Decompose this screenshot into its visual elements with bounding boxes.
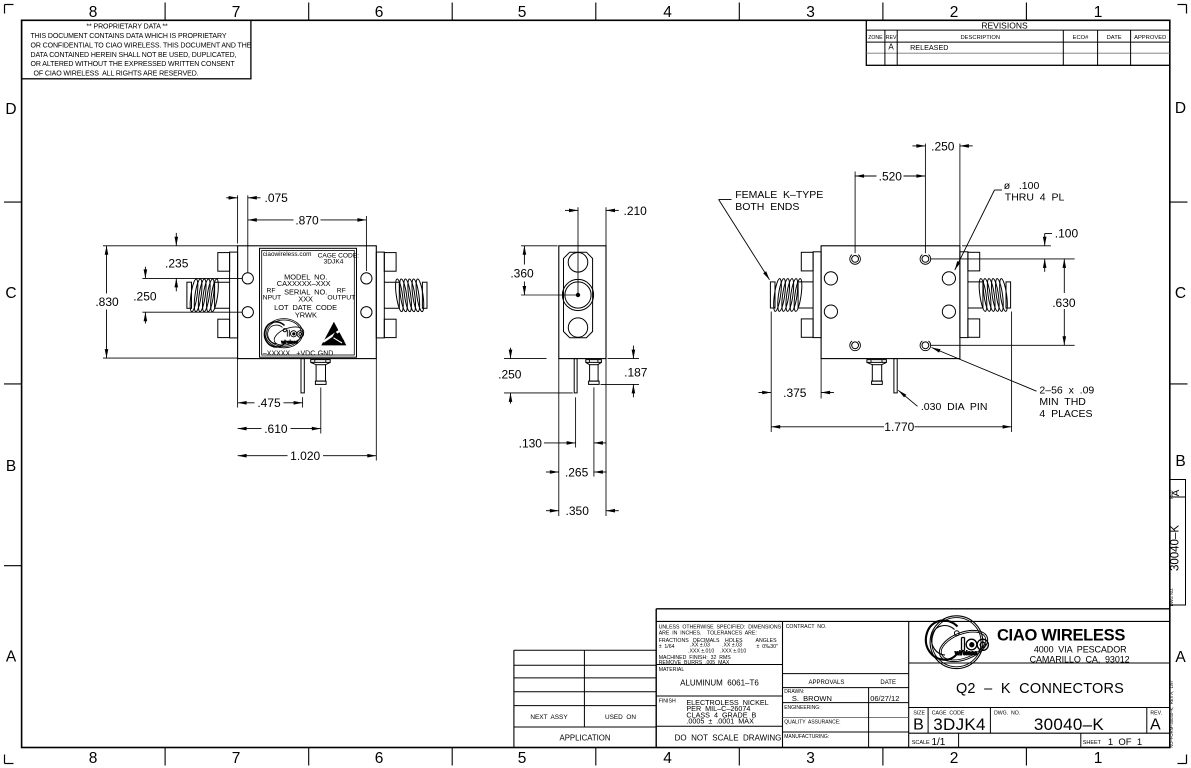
svg-text:DWG. NO.: DWG. NO.	[994, 711, 1020, 717]
svg-text:1.020: 1.020	[290, 449, 320, 463]
front view RF input connector	[187, 252, 238, 338]
svg-text:.375: .375	[783, 386, 807, 400]
form control note	[1169, 680, 1174, 748]
svg-text:OR ALTERED WITHOUT THE EXPRESS: OR ALTERED WITHOUT THE EXPRESSED WRITTEN…	[31, 61, 236, 68]
svg-text:.265: .265	[565, 465, 589, 479]
dim .520 back	[855, 169, 925, 253]
svg-text:D: D	[1175, 100, 1186, 117]
svg-text:3DJK4: 3DJK4	[324, 259, 344, 266]
note female k-type both ends	[719, 189, 824, 280]
zone column numbers bottom	[89, 750, 1103, 767]
tolerance notes	[659, 624, 782, 666]
svg-text:RELEASED: RELEASED	[910, 43, 948, 52]
svg-text:DATE: DATE	[1107, 35, 1122, 41]
svg-text:.870: .870	[295, 213, 319, 227]
svg-text:.350: .350	[566, 504, 590, 518]
scale cell	[912, 737, 946, 748]
drawn row	[784, 689, 899, 703]
svg-text:A: A	[1175, 649, 1186, 666]
finish cell	[659, 698, 769, 726]
side view GND pin	[586, 360, 602, 477]
manufacturing row	[784, 734, 829, 740]
svg-text:ciaowireless.com: ciaowireless.com	[263, 251, 312, 258]
svg-text:DO NOT SCALE DRAWING: DO NOT SCALE DRAWING	[675, 733, 782, 742]
back view .030 dia bias pin	[894, 359, 897, 393]
svg-text:DATE: DATE	[880, 680, 896, 686]
front view product label plate	[260, 248, 357, 357]
svg-text:.235: .235	[165, 257, 189, 271]
svg-text:–XXXXX: –XXXXX	[263, 351, 291, 358]
svg-text:4 PLACES: 4 PLACES	[1039, 408, 1092, 420]
svg-text:CONTRACT NO.: CONTRACT NO.	[786, 624, 827, 630]
svg-text:2: 2	[950, 4, 959, 21]
svg-text:C: C	[1175, 285, 1186, 302]
dim .265 side	[546, 359, 607, 481]
svg-text:1/1: 1/1	[931, 737, 945, 748]
front view +VDC bias pin	[301, 359, 304, 393]
svg-text:QUALITY ASSURANCE:: QUALITY ASSURANCE:	[784, 720, 840, 726]
dim .610 front	[238, 388, 321, 437]
svg-text:06/27/12: 06/27/12	[870, 694, 899, 703]
svg-text:ARE IN INCHES. TOLERANCES: ARE IN INCHES. TOLERANCES ARE:	[659, 631, 757, 637]
side view body outline	[559, 246, 606, 359]
svg-text:DWG NO.: DWG NO.	[1169, 588, 1174, 607]
svg-text:.475: .475	[257, 396, 281, 410]
svg-text:A: A	[1171, 489, 1182, 496]
svg-text:UNLESS OTHERWISE SPECIFIED:: UNLESS OTHERWISE SPECIFIED: DIMENSIONS	[659, 624, 782, 630]
proprietary data notice box	[22, 20, 252, 79]
svg-text:4: 4	[663, 750, 672, 767]
company name and address	[997, 626, 1130, 664]
svg-text:REMOVE BURRS .005 MAX: REMOVE BURRS .005 MAX	[659, 660, 730, 666]
dim .250 back	[912, 139, 972, 253]
dim .870 front	[248, 213, 367, 271]
svg-text:.250: .250	[133, 290, 157, 304]
svg-text:3DJK4: 3DJK4	[933, 715, 986, 734]
side view upper connector jack circle	[568, 252, 588, 272]
quality assurance row	[784, 720, 840, 726]
revisions table	[866, 20, 1170, 65]
svg-text:1: 1	[1094, 4, 1103, 21]
svg-text:1.770: 1.770	[884, 420, 914, 434]
svg-text:.520: .520	[879, 169, 903, 183]
dim .250 side	[498, 348, 573, 404]
svg-text:THIS DOCUMENT CONTAINS DATA WH: THIS DOCUMENT CONTAINS DATA WHICH IS PRO…	[31, 33, 227, 40]
size cell	[913, 711, 925, 734]
application block	[514, 650, 656, 747]
contract no cell	[786, 624, 827, 630]
dim 1.020 front	[238, 359, 377, 464]
dim .250 front	[133, 267, 242, 324]
svg-text:ANGLES: ANGLES	[756, 638, 778, 644]
title block ciao logo	[926, 616, 992, 669]
back view 2-56 tapped holes	[850, 255, 931, 351]
front view RF output connector	[376, 252, 427, 338]
sheet cell	[1083, 737, 1142, 748]
svg-text:B: B	[6, 458, 16, 475]
svg-text:A: A	[1150, 717, 1161, 734]
svg-text:SCALE: SCALE	[912, 740, 930, 746]
zone row letters right	[1175, 100, 1186, 666]
svg-text:OF CIAO WIRELESS ALL RIGHTS A: OF CIAO WIRELESS ALL RIGHTS ARE RESERVED…	[34, 71, 199, 78]
svg-text:2–56 x .09: 2–56 x .09	[1039, 385, 1094, 397]
svg-text:REV: REV	[886, 35, 897, 41]
svg-text:** PROPRIETARY DATA **: ** PROPRIETARY DATA **	[86, 23, 168, 30]
svg-text:SHEET: SHEET	[1083, 740, 1102, 746]
svg-text:.075: .075	[265, 191, 289, 205]
svg-text:4: 4	[663, 4, 672, 21]
svg-text:FRACTIONS: FRACTIONS	[659, 638, 690, 644]
zone column numbers top	[89, 4, 1103, 21]
svg-text:FEMALE K–TYPE: FEMALE K–TYPE	[735, 189, 823, 201]
do not scale drawing cell	[675, 733, 782, 742]
svg-text:.187: .187	[624, 365, 648, 379]
svg-text:APPLICATION: APPLICATION	[560, 733, 611, 742]
dim .350 side	[546, 359, 619, 518]
svg-text:30040–K: 30040–K	[1034, 715, 1105, 734]
svg-text:A: A	[6, 649, 17, 666]
back view RF input connector	[770, 252, 821, 338]
svg-text:ECO#: ECO#	[1073, 35, 1090, 41]
front view GND feedthru pin	[311, 360, 331, 385]
svg-text:wireless: wireless	[281, 340, 298, 345]
svg-text:.XXX ±.010: .XXX ±.010	[720, 649, 746, 655]
svg-text:± 0‰30″: ± 0‰30″	[757, 644, 779, 650]
svg-text:FINISH: FINISH	[659, 699, 676, 705]
svg-text:USED ON: USED ON	[605, 714, 636, 721]
svg-text:8: 8	[89, 750, 98, 767]
svg-text:± 1/64: ± 1/64	[659, 644, 675, 650]
side view K connector bore	[562, 279, 593, 310]
svg-text:MATERIAL: MATERIAL	[659, 667, 685, 673]
drawing title	[956, 681, 1124, 697]
svg-text:A: A	[888, 43, 894, 52]
back view RF output connector	[960, 252, 1011, 338]
material cell	[659, 667, 760, 688]
svg-text:NEXT ASSY: NEXT ASSY	[530, 714, 568, 721]
svg-text:B: B	[1175, 453, 1185, 470]
svg-text:.030 DIA PIN: .030 DIA PIN	[921, 401, 988, 413]
svg-text:DATA CONTAINED HEREIN SHALL NO: DATA CONTAINED HEREIN SHALL NOT BE USED,…	[31, 52, 237, 59]
svg-text:+VDC: +VDC	[296, 351, 315, 358]
svg-text:C: C	[5, 285, 16, 302]
svg-text:3: 3	[806, 750, 815, 767]
note .030 dia pin	[898, 390, 987, 413]
svg-text:BOTH ENDS: BOTH ENDS	[735, 201, 799, 213]
approvals header	[808, 680, 896, 686]
dim .830 front	[95, 246, 237, 358]
svg-text:APPROVALS: APPROVALS	[808, 680, 844, 686]
svg-text:1: 1	[1094, 750, 1103, 767]
svg-text:wireless: wireless	[954, 650, 977, 657]
front view ESD warning triangle	[321, 322, 346, 346]
svg-text:OUTPUT: OUTPUT	[327, 295, 355, 302]
svg-text:6: 6	[375, 750, 384, 767]
side view connector interface plate	[564, 252, 593, 338]
dim .475 front	[238, 359, 303, 411]
svg-text:.360: .360	[510, 266, 534, 280]
svg-text:.610: .610	[264, 422, 288, 436]
dim .100 back	[930, 227, 1078, 272]
svg-text:7: 7	[232, 4, 241, 21]
zone row letters left	[5, 101, 16, 666]
svg-text:ZONE: ZONE	[868, 35, 883, 41]
back view thru holes	[824, 272, 955, 318]
svg-text:1 OF 1: 1 OF 1	[1108, 737, 1142, 748]
back view GND feedthru pin	[867, 360, 887, 385]
title block frame	[656, 609, 1170, 748]
svg-text:.630: .630	[1052, 296, 1076, 310]
svg-text:2: 2	[950, 750, 959, 767]
dim .235 front	[142, 233, 242, 291]
svg-text:5: 5	[518, 750, 527, 767]
dim .630 back	[930, 259, 1076, 345]
note dia .100 thru 4 pl	[955, 180, 1065, 270]
dim 1.770 back	[771, 312, 1011, 435]
dim .130 side	[519, 436, 607, 450]
front view label text	[261, 251, 359, 357]
svg-text:3: 3	[806, 4, 815, 21]
dim .210 side	[565, 204, 647, 246]
front view mounting holes	[242, 273, 372, 318]
engineering row	[784, 705, 820, 711]
note 2-56 tapped holes	[932, 348, 1095, 420]
svg-text:MANUFACTURING:: MANUFACTURING:	[784, 734, 829, 740]
dim .375 back	[758, 312, 834, 400]
dim .075 front	[226, 191, 288, 272]
svg-text:ø .100: ø .100	[1004, 180, 1040, 192]
svg-text:Q2 – K CONNECTORS: Q2 – K CONNECTORS	[956, 681, 1124, 697]
svg-text:.130: .130	[519, 436, 543, 450]
side view center lines	[521, 207, 578, 295]
front view ciao logo	[264, 319, 306, 349]
dim .187 side	[601, 346, 648, 398]
cage code cell	[932, 711, 986, 734]
svg-text:ALUMINUM 6061–T6: ALUMINUM 6061–T6	[680, 678, 759, 687]
svg-text:B: B	[913, 717, 924, 734]
svg-text:YRWK: YRWK	[295, 311, 317, 320]
svg-text:THRU 4 PL: THRU 4 PL	[1005, 191, 1065, 203]
svg-text:.210: .210	[624, 204, 648, 218]
dwg no cell	[994, 711, 1104, 734]
back view body outline	[821, 246, 960, 359]
svg-text:INPUT: INPUT	[261, 295, 281, 302]
svg-text:OR CONFIDENTIAL TO CIAO WIRELE: OR CONFIDENTIAL TO CIAO WIRELESS. THIS D…	[31, 42, 252, 49]
svg-text:4000 VIA PESCADOR: 4000 VIA PESCADOR	[1034, 645, 1127, 655]
svg-text:APPROVED: APPROVED	[1134, 35, 1166, 41]
svg-text:REVISIONS: REVISIONS	[981, 20, 1028, 30]
svg-text:MIN THD: MIN THD	[1039, 396, 1086, 408]
side view bias pin	[574, 359, 577, 448]
svg-text:CAMARILLO CA, 93012: CAMARILLO CA, 93012	[1030, 655, 1130, 665]
rev cell	[1150, 711, 1162, 734]
dim .360 side	[510, 246, 557, 295]
svg-text:S. BROWN: S. BROWN	[792, 694, 832, 703]
front view body outline	[238, 246, 377, 359]
svg-text:5: 5	[518, 4, 527, 21]
svg-text:6: 6	[375, 4, 384, 21]
svg-text:7: 7	[232, 750, 241, 767]
svg-text:30040–K: 30040–K	[1169, 525, 1181, 571]
svg-text:.0005 ± .0001 MAX: .0005 ± .0001 MAX	[686, 717, 754, 726]
svg-text:ENGINEERING:: ENGINEERING:	[784, 705, 820, 711]
svg-text:8: 8	[89, 4, 98, 21]
svg-text:CIAO WIRELESS: CIAO WIRELESS	[997, 626, 1125, 644]
svg-text:.250: .250	[498, 368, 522, 382]
right margin drawing number strip	[1169, 480, 1186, 607]
side view lower connector jack circle	[568, 318, 587, 337]
svg-text:.100: .100	[1055, 227, 1079, 241]
svg-text:D: D	[5, 101, 16, 118]
svg-text:.830: .830	[95, 295, 119, 309]
svg-text:GND: GND	[318, 351, 334, 358]
svg-text:.250: .250	[931, 139, 955, 153]
svg-text:.XXX ±.010: .XXX ±.010	[688, 649, 714, 655]
svg-text:DESCRIPTION: DESCRIPTION	[960, 35, 1000, 41]
svg-text:NO–FORM–30040–K, REV A, 1/97: NO–FORM–30040–K, REV A, 1/97	[1169, 680, 1174, 748]
